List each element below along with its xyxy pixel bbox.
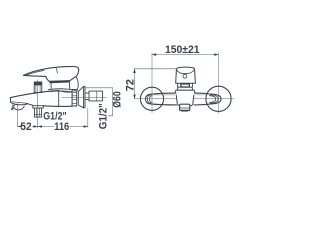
spout inner line: [12, 102, 28, 104]
body / spout outline: [10, 91, 72, 107]
lever top inner line: [24, 70, 44, 76]
mouth lip: [181, 110, 188, 112]
72 dimension: [135, 68, 177, 70]
svg-text:116: 116: [54, 121, 69, 133]
body inner highlight lines: [154, 94, 208, 96]
body capsule: [150, 93, 210, 105]
front view centre line horizontal: [135, 98, 235, 100]
lever back / cartridge back edge: [76, 77, 78, 90]
svg-text:Ø60: Ø60: [112, 91, 124, 108]
svg-text:150±21: 150±21: [165, 44, 200, 56]
spout underside: [11, 102, 33, 105]
neck / cartridge front: [178, 83, 193, 87]
spout front arch: [176, 95, 194, 106]
body section edge: [58, 91, 60, 107]
diverter knob on body: [34, 82, 42, 85]
inner cap arcs left: [147, 95, 150, 103]
flange circle right: [206, 86, 231, 111]
knob / outlet centre line: [37, 80, 39, 128]
150 dimension line: [152, 54, 219, 56]
eccentric connector: [85, 93, 89, 100]
bottom dimension line: [18, 126, 88, 128]
spout outlet centre line: [17, 103, 19, 126]
svg-text:G1/2": G1/2": [97, 103, 109, 129]
lever handle side: [24, 67, 79, 82]
handle front: [176, 67, 196, 83]
svg-text:52: 52: [20, 121, 31, 133]
wall flange side (bell): [78, 86, 83, 107]
svg-text:72: 72: [124, 79, 136, 91]
vertical crosshair right: [218, 53, 220, 114]
cartridge housing side: [50, 83, 52, 89]
O60 extension polyline: [85, 88, 113, 116]
flange circle left: [140, 87, 163, 110]
flow arrow at spout tip: [12, 105, 15, 108]
cartridge base flare: [177, 87, 193, 90]
body right shoulder: [71, 92, 73, 106]
spout mouth: [180, 104, 190, 110]
aerator cup under spout tip: [13, 105, 25, 110]
lever notch: [56, 68, 57, 73]
116 extension line at wall: [87, 108, 89, 127]
svg-text:G1/2": G1/2": [43, 111, 66, 123]
left view centre line: [62, 97, 107, 99]
cartridge dome curves: [48, 89, 75, 91]
shower outlet under body: [33, 106, 43, 108]
dimension arrows bottom: [18, 125, 88, 128]
wall nut: [72, 89, 77, 106]
vertical crosshair left: [151, 53, 153, 113]
spout front white mask: [176, 95, 194, 106]
inner cap arcs right: [211, 95, 219, 103]
lever underside band: [50, 80, 68, 83]
